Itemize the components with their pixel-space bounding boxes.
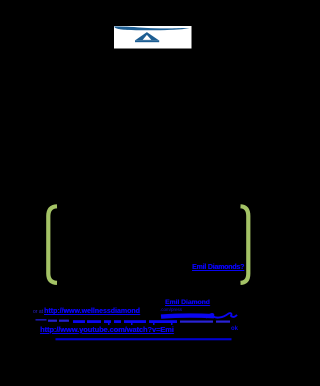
line B small tail text xyxy=(160,308,182,313)
white plate xyxy=(114,26,192,49)
triangle base bar xyxy=(135,40,159,42)
line C lighter tail xyxy=(180,321,213,323)
line C small text blobs xyxy=(48,320,57,322)
blue swoosh xyxy=(114,26,189,30)
right bracket xyxy=(241,206,249,283)
link inside brackets xyxy=(192,264,244,271)
line D xyxy=(40,326,174,334)
blue triangle xyxy=(135,32,159,40)
rule line xyxy=(56,338,232,340)
line A xyxy=(165,300,210,307)
line B bold url xyxy=(44,308,140,315)
line B faint lead-in xyxy=(33,310,43,315)
line C descender ticks xyxy=(108,323,110,325)
line C heavy dashes xyxy=(73,320,85,323)
line C faint lead-in xyxy=(36,319,47,321)
left bracket xyxy=(48,206,57,283)
